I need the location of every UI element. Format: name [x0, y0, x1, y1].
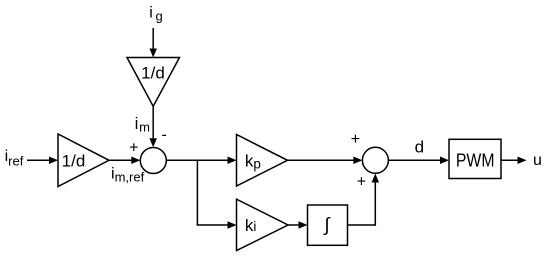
wire kp to summing junction S2	[288, 157, 363, 165]
svg-text:+: +	[129, 140, 138, 157]
summing junction S1	[140, 148, 166, 174]
wire top gain to summing junction S1	[149, 106, 157, 147]
gain block 1/d (left triangle)	[58, 134, 109, 187]
minus sign at S1 top input	[162, 127, 167, 144]
wire ki to integrator	[288, 221, 308, 229]
gain block 1/d (top, down-pointing triangle)	[127, 58, 180, 107]
svg-text:d: d	[415, 138, 424, 157]
plus sign at S1 left input	[129, 140, 138, 157]
svg-text:+: +	[357, 173, 366, 190]
integrator block	[308, 205, 348, 245]
label i_g	[149, 5, 162, 24]
wire i_g to gain 1/d (top)	[149, 28, 157, 58]
label i_m	[135, 114, 150, 135]
gain block ki	[237, 199, 289, 250]
PWM block	[449, 139, 501, 178]
wire PWM to output u	[501, 157, 527, 165]
plus sign at S2 left input	[351, 131, 360, 148]
wire branch down to gain ki	[197, 160, 237, 228]
svg-text:u: u	[533, 152, 542, 169]
svg-text:1/d: 1/d	[141, 64, 165, 83]
svg-text:PWM: PWM	[456, 150, 495, 170]
label i_m,ref	[111, 165, 145, 184]
wire gain 1/d to summing junction S1	[109, 157, 140, 165]
wire i_ref to gain 1/d	[27, 157, 58, 165]
wire S1 to gain kp	[166, 157, 236, 165]
svg-text:-: -	[162, 127, 167, 144]
svg-text:1/d: 1/d	[62, 151, 86, 170]
label d	[415, 138, 424, 157]
plus sign at S2 bottom input	[357, 173, 366, 190]
label i_ref	[5, 148, 24, 168]
svg-text:+: +	[351, 131, 360, 148]
summing junction S2	[362, 147, 388, 173]
label u	[533, 152, 542, 169]
gain block kp	[237, 135, 288, 187]
wire integrator to summing junction S2	[348, 174, 380, 226]
wire S2 to PWM	[388, 157, 449, 165]
svg-text:ki: ki	[245, 216, 257, 235]
